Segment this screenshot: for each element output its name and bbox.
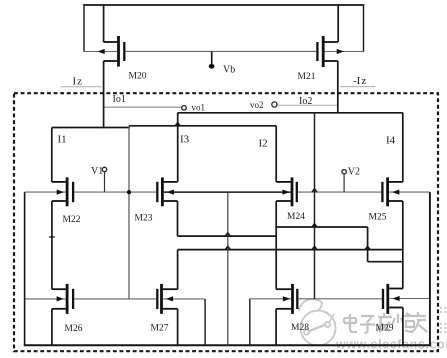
svg-text:M26: M26: [65, 324, 83, 334]
svg-text:M25: M25: [369, 213, 387, 223]
svg-text:Iz: Iz: [73, 76, 83, 88]
svg-text:M23: M23: [135, 214, 153, 224]
svg-text:I1: I1: [58, 134, 67, 146]
svg-text:M20: M20: [129, 72, 147, 82]
svg-text:I2: I2: [259, 138, 268, 150]
svg-text:vo2: vo2: [250, 100, 264, 110]
svg-text:V2: V2: [348, 167, 360, 178]
svg-text:-Iz: -Iz: [353, 75, 366, 87]
svg-text:M27: M27: [151, 324, 169, 334]
svg-text:Vb: Vb: [223, 65, 235, 76]
svg-text:M24: M24: [287, 212, 305, 222]
svg-text:Io2: Io2: [299, 96, 312, 107]
svg-text:I4: I4: [386, 134, 396, 146]
svg-text:M28: M28: [291, 323, 309, 333]
svg-text:M29: M29: [376, 324, 394, 334]
svg-text:M21: M21: [298, 72, 316, 82]
svg-text:Io1: Io1: [113, 94, 126, 105]
svg-text:vo1: vo1: [192, 103, 206, 113]
svg-text:M22: M22: [63, 215, 81, 225]
svg-text:V1: V1: [91, 166, 103, 177]
svg-text:I3: I3: [180, 133, 190, 145]
